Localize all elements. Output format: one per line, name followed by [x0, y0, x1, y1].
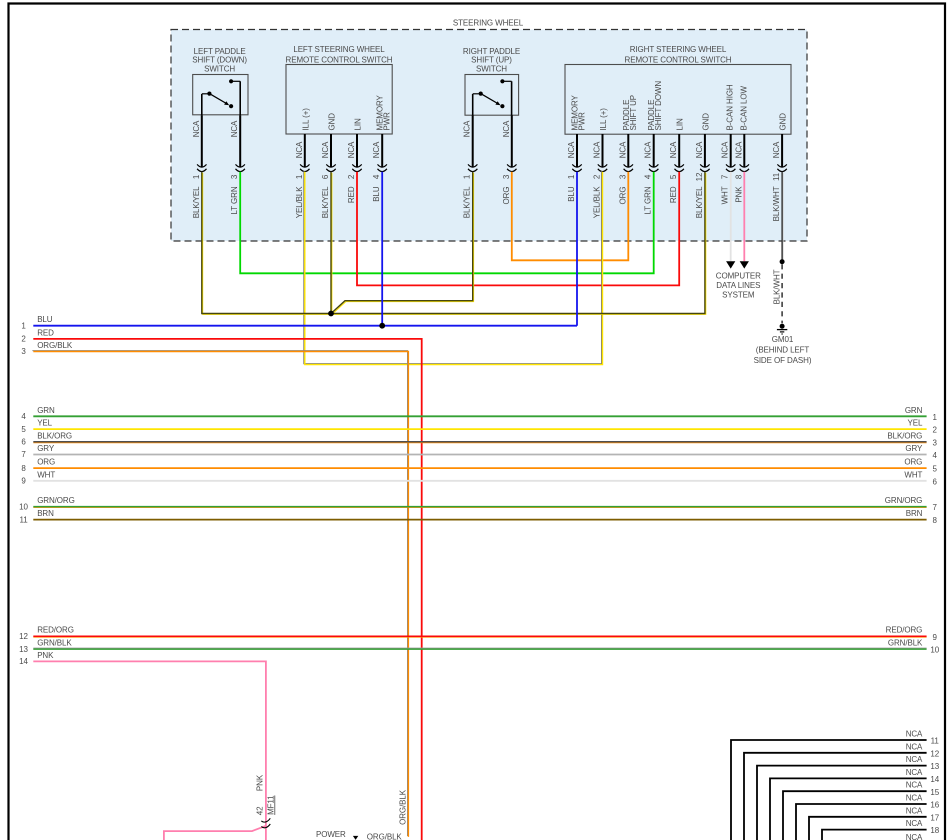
svg-text:SHIFT (UP): SHIFT (UP)	[471, 56, 512, 65]
svg-text:NCA: NCA	[230, 120, 239, 137]
svg-text:18: 18	[930, 826, 939, 835]
svg-text:9: 9	[933, 633, 938, 642]
svg-text:GRN/ORG: GRN/ORG	[885, 496, 923, 505]
svg-text:RIGHT STEERING WHEEL: RIGHT STEERING WHEEL	[630, 45, 727, 54]
svg-text:1: 1	[463, 174, 472, 179]
svg-text:7: 7	[933, 503, 938, 512]
svg-text:SWITCH: SWITCH	[476, 64, 507, 73]
svg-text:4: 4	[21, 412, 26, 421]
svg-text:BLK/YEL: BLK/YEL	[321, 186, 330, 218]
svg-text:BLK/YEL: BLK/YEL	[695, 186, 704, 218]
svg-text:42: 42	[256, 806, 265, 815]
svg-text:1: 1	[192, 174, 201, 179]
svg-text:NCA: NCA	[644, 141, 653, 158]
svg-text:GRN: GRN	[37, 406, 55, 415]
svg-text:SYSTEM: SYSTEM	[722, 290, 755, 299]
svg-text:YEL: YEL	[37, 419, 52, 428]
svg-text:1: 1	[933, 413, 938, 422]
svg-text:NCA: NCA	[906, 781, 923, 790]
svg-text:NCA: NCA	[906, 742, 923, 751]
svg-text:NCA: NCA	[669, 141, 678, 158]
svg-text:LEFT STEERING WHEEL: LEFT STEERING WHEEL	[293, 45, 385, 54]
svg-text:17: 17	[930, 813, 939, 822]
svg-text:(BEHIND LEFT: (BEHIND LEFT	[756, 346, 810, 355]
svg-text:8: 8	[933, 516, 938, 525]
svg-text:BLK/YEL: BLK/YEL	[463, 186, 472, 218]
svg-text:16: 16	[930, 801, 939, 810]
svg-text:PNK: PNK	[734, 186, 743, 203]
svg-text:11: 11	[19, 515, 28, 524]
svg-text:NCA: NCA	[906, 806, 923, 815]
svg-text:GRN/BLK: GRN/BLK	[37, 639, 72, 648]
svg-text:ORG: ORG	[904, 458, 922, 467]
svg-text:RED/ORG: RED/ORG	[886, 626, 923, 635]
svg-text:NCA: NCA	[906, 730, 923, 739]
svg-text:SWITCH: SWITCH	[204, 64, 235, 73]
svg-text:NCA: NCA	[906, 794, 923, 803]
svg-text:2: 2	[21, 335, 26, 344]
svg-text:NCA: NCA	[906, 755, 923, 764]
svg-text:BLK/WHT: BLK/WHT	[772, 186, 781, 221]
svg-text:REMOTE CONTROL SWITCH: REMOTE CONTROL SWITCH	[625, 55, 732, 64]
svg-text:ORG/BLK: ORG/BLK	[367, 833, 403, 840]
svg-text:3: 3	[933, 438, 938, 447]
svg-text:LT GRN: LT GRN	[230, 186, 239, 214]
svg-text:BLK/YEL: BLK/YEL	[192, 186, 201, 218]
svg-text:SHIFT UP: SHIFT UP	[629, 95, 638, 131]
svg-text:ORG: ORG	[618, 187, 627, 205]
svg-text:15: 15	[930, 788, 939, 797]
svg-text:BLK/WHT: BLK/WHT	[773, 269, 782, 304]
svg-text:ORG/BLK: ORG/BLK	[37, 341, 73, 350]
svg-text:BRN: BRN	[906, 509, 923, 518]
svg-text:8: 8	[21, 464, 26, 473]
svg-text:2: 2	[347, 174, 356, 179]
svg-text:RED: RED	[347, 186, 356, 203]
svg-text:COMPUTER: COMPUTER	[716, 272, 761, 281]
svg-text:3: 3	[618, 174, 627, 179]
svg-text:SHIFT DOWN: SHIFT DOWN	[654, 81, 663, 131]
svg-text:3: 3	[230, 174, 239, 179]
svg-text:ORG: ORG	[502, 187, 511, 205]
svg-text:PWR: PWR	[578, 112, 587, 131]
svg-text:NCA: NCA	[463, 120, 472, 137]
svg-text:NCA: NCA	[721, 141, 730, 158]
svg-text:WHT: WHT	[904, 470, 922, 479]
svg-text:NCA: NCA	[618, 141, 627, 158]
svg-text:REMOTE CONTROL SWITCH: REMOTE CONTROL SWITCH	[286, 55, 393, 64]
svg-text:4: 4	[372, 174, 381, 179]
svg-text:BLK/ORG: BLK/ORG	[37, 431, 72, 440]
svg-text:NCA: NCA	[734, 141, 743, 158]
svg-text:6: 6	[933, 477, 938, 486]
svg-text:GM01: GM01	[772, 335, 794, 344]
svg-text:ORG/BLK: ORG/BLK	[398, 789, 407, 825]
svg-text:5: 5	[669, 174, 678, 179]
svg-text:BLU: BLU	[37, 315, 53, 324]
svg-text:10: 10	[930, 646, 939, 655]
svg-text:4: 4	[933, 451, 938, 460]
svg-text:BLK/ORG: BLK/ORG	[887, 431, 922, 440]
svg-text:RED/ORG: RED/ORG	[37, 626, 74, 635]
svg-text:SHIFT (DOWN): SHIFT (DOWN)	[192, 56, 247, 65]
svg-text:NCA: NCA	[906, 819, 923, 828]
svg-text:NCA: NCA	[772, 141, 781, 158]
svg-text:DATA LINES: DATA LINES	[716, 281, 760, 290]
svg-text:MF11: MF11	[266, 795, 275, 815]
svg-text:NCA: NCA	[192, 120, 201, 137]
svg-text:RED: RED	[669, 186, 678, 203]
svg-text:NCA: NCA	[347, 141, 356, 158]
svg-text:12: 12	[19, 632, 28, 641]
svg-text:12: 12	[695, 172, 704, 181]
svg-text:13: 13	[19, 645, 28, 654]
svg-text:7: 7	[721, 174, 730, 179]
svg-text:BRN: BRN	[37, 509, 54, 518]
svg-text:2: 2	[593, 174, 602, 179]
svg-text:BLU: BLU	[567, 186, 576, 202]
svg-text:LT GRN: LT GRN	[644, 186, 653, 214]
svg-text:STEERING WHEEL: STEERING WHEEL	[453, 19, 524, 28]
svg-text:3: 3	[21, 347, 26, 356]
svg-text:12: 12	[930, 749, 939, 758]
svg-text:YEL/BLK: YEL/BLK	[593, 186, 602, 219]
svg-text:PNK: PNK	[256, 774, 265, 791]
svg-text:5: 5	[933, 465, 938, 474]
svg-text:ILL (+): ILL (+)	[301, 108, 310, 131]
svg-text:11: 11	[931, 737, 940, 746]
svg-text:14: 14	[19, 657, 28, 666]
svg-text:1: 1	[295, 174, 304, 179]
svg-text:NCA: NCA	[593, 141, 602, 158]
svg-text:PNK: PNK	[37, 651, 54, 660]
svg-text:14: 14	[930, 775, 939, 784]
svg-text:8: 8	[734, 174, 743, 179]
svg-text:NCA: NCA	[321, 141, 330, 158]
svg-text:NCA: NCA	[906, 833, 923, 840]
svg-text:WHT: WHT	[721, 186, 730, 204]
svg-text:11: 11	[772, 172, 781, 181]
svg-text:4: 4	[644, 174, 653, 179]
svg-text:NCA: NCA	[295, 141, 304, 158]
svg-text:GRN: GRN	[905, 406, 923, 415]
svg-text:6: 6	[21, 438, 26, 447]
svg-text:YEL: YEL	[907, 419, 922, 428]
svg-text:NCA: NCA	[695, 141, 704, 158]
svg-text:RED: RED	[37, 328, 54, 337]
svg-text:10: 10	[19, 502, 28, 511]
svg-text:RIGHT PADDLE: RIGHT PADDLE	[463, 47, 520, 56]
svg-text:YEL/BLK: YEL/BLK	[295, 186, 304, 219]
svg-text:SIDE OF DASH): SIDE OF DASH)	[754, 356, 812, 365]
svg-text:1: 1	[21, 321, 26, 330]
svg-text:NCA: NCA	[502, 120, 511, 137]
svg-text:PWR: PWR	[383, 112, 392, 131]
svg-text:9: 9	[21, 477, 26, 486]
svg-text:3: 3	[502, 174, 511, 179]
svg-text:NCA: NCA	[372, 141, 381, 158]
svg-text:2: 2	[933, 426, 938, 435]
svg-text:13: 13	[930, 762, 939, 771]
svg-text:POWER: POWER	[316, 830, 346, 839]
svg-text:GND: GND	[328, 113, 337, 131]
svg-text:LEFT PADDLE: LEFT PADDLE	[194, 47, 246, 56]
svg-text:ILL (+): ILL (+)	[599, 108, 608, 131]
svg-text:GND: GND	[779, 113, 788, 131]
svg-text:1: 1	[567, 174, 576, 179]
svg-text:GRY: GRY	[37, 444, 55, 453]
svg-text:GRN/BLK: GRN/BLK	[888, 639, 923, 648]
svg-text:5: 5	[21, 425, 26, 434]
svg-text:GRN/ORG: GRN/ORG	[37, 496, 75, 505]
svg-text:LIN: LIN	[354, 118, 363, 130]
svg-text:NCA: NCA	[906, 768, 923, 777]
svg-text:BLU: BLU	[372, 186, 381, 202]
svg-text:ORG: ORG	[37, 458, 55, 467]
svg-text:B-CAN LOW: B-CAN LOW	[739, 86, 748, 131]
svg-text:6: 6	[321, 174, 330, 179]
svg-text:7: 7	[21, 450, 26, 459]
svg-text:WHT: WHT	[37, 470, 55, 479]
svg-text:GND: GND	[701, 113, 710, 131]
svg-text:B-CAN HIGH: B-CAN HIGH	[726, 84, 735, 130]
svg-text:LIN: LIN	[676, 118, 685, 130]
svg-text:NCA: NCA	[567, 141, 576, 158]
svg-text:GRY: GRY	[905, 444, 923, 453]
